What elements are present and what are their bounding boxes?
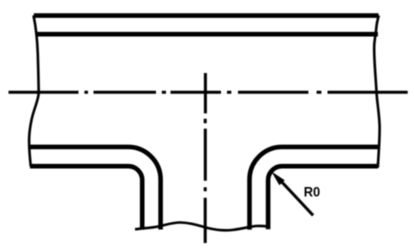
bottom break line (freehand) across branch pipe [135,222,268,230]
leader arrow line for R0 [279,179,313,216]
leader arrowhead pointing at right outer fillet [271,172,284,186]
vertical centerline (dash-dot) of branch pipe [204,73,207,243]
run pipe bottom wall inner line, left + left crotch fillet + branch left wall inner line [30,147,161,230]
run pipe top wall outer line [34,13,379,18]
run pipe bottom wall inner line, right + right crotch fillet + branch right wall inner line [250,147,380,230]
horizontal centerline (dash-dot) of run pipe [9,91,408,94]
right break line (freehand) [374,15,379,167]
run pipe top wall inner line [36,32,378,37]
left break line (freehand) [29,15,39,166]
run pipe bottom wall outer line, right + right outer fillet + branch right wall outer line [268,166,378,229]
run pipe bottom wall outer line, left + left outer fillet + branch left wall outer line [30,166,142,229]
svg-text:R0: R0 [304,183,321,199]
